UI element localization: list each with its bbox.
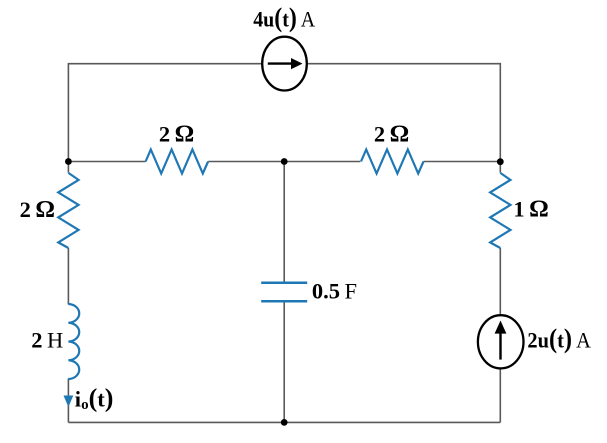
wire right branch below source — [499, 369, 501, 422]
resistor R top-left 2ohm horizontal — [146, 150, 209, 174]
svg-text:2u(t) A: 2u(t) A — [527, 323, 591, 353]
wire left branch below coil — [67, 379, 69, 423]
node A dot (left mid) — [65, 158, 72, 165]
wire bottom — [68, 421, 500, 423]
inductor L 2H coil — [68, 304, 79, 379]
node D dot (bottom center) — [281, 419, 288, 426]
io(t) arrowhead — [64, 396, 74, 408]
wire outer top loop — [68, 64, 500, 162]
wire left branch between R and L — [67, 248, 69, 305]
current source I2 arrow — [499, 330, 501, 360]
current source I2 2u(t)A ellipse — [478, 315, 524, 368]
wire middle branch upper — [283, 162, 285, 283]
wire middle branch lower — [283, 301, 285, 422]
wire mid-center — [208, 161, 360, 163]
resistor R top-right 2ohm horizontal — [361, 150, 424, 174]
wire right branch between R and source — [499, 248, 501, 314]
current source I1 arrow — [268, 62, 293, 64]
svg-text:2 Ω: 2 Ω — [20, 196, 55, 223]
svg-text:2 H: 2 H — [31, 327, 63, 352]
wire right branch stub below node — [499, 162, 501, 173]
node C dot (right mid) — [497, 158, 504, 165]
svg-text:0.5 F: 0.5 F — [312, 278, 357, 303]
resistor R left 2ohm vertical — [58, 173, 78, 248]
svg-text:io(t): io(t) — [75, 384, 114, 414]
wire mid-right — [424, 161, 501, 163]
wire left branch upper stub — [67, 162, 69, 173]
capacitor C 0.5F plates — [261, 283, 307, 302]
svg-text:1 Ω: 1 Ω — [513, 196, 548, 223]
current source I1 4u(t)A ellipse — [262, 37, 307, 91]
wire mid-left — [68, 161, 145, 163]
resistor R right 1ohm vertical — [490, 173, 510, 248]
svg-text:4u(t) A: 4u(t) A — [253, 3, 316, 33]
svg-text:2 Ω: 2 Ω — [159, 121, 194, 148]
node B dot (center mid) — [281, 158, 288, 165]
svg-text:2 Ω: 2 Ω — [374, 120, 409, 147]
